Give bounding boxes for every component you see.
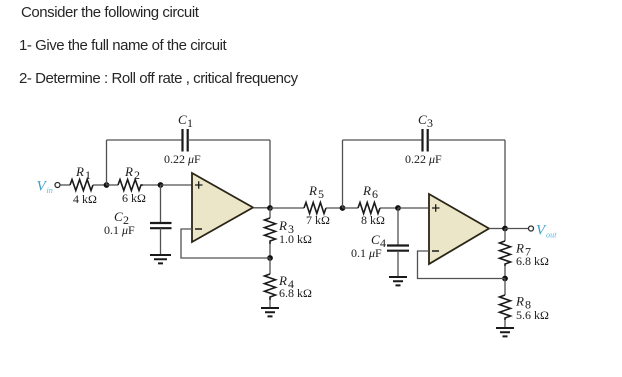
svg-text:8 kΩ: 8 kΩ xyxy=(361,213,385,227)
wire C3 rail left xyxy=(343,139,423,141)
wire R7 to node H xyxy=(504,266,506,279)
node H junction R7/R8/feedback xyxy=(502,276,508,282)
label C3 xyxy=(418,112,433,130)
wire node H to R8 xyxy=(504,279,506,296)
ground under C4 xyxy=(389,277,407,285)
wire R2 to node B xyxy=(143,184,161,186)
svg-text:C: C xyxy=(114,209,123,224)
label 5.6 kOhm xyxy=(516,308,549,322)
U2 plus input symbol xyxy=(432,204,440,212)
wire C4 to ground xyxy=(397,251,399,277)
wire feedback U1 from node D to minus input xyxy=(181,229,270,258)
svg-text:C: C xyxy=(371,232,380,247)
wire C1 rail right xyxy=(188,139,270,141)
wire C1 rail down to node C xyxy=(269,140,271,208)
label Vout xyxy=(536,223,557,240)
svg-text:1.0 kΩ: 1.0 kΩ xyxy=(279,232,312,246)
wire R4 to ground xyxy=(269,300,271,308)
ground under R8 xyxy=(496,328,514,336)
svg-text:R: R xyxy=(308,183,317,198)
capacitor C1 xyxy=(183,129,188,152)
resistor R2 xyxy=(118,180,143,191)
label 6 kOhm xyxy=(122,191,146,205)
svg-text:0.1 μF: 0.1 μF xyxy=(104,223,135,237)
resistor R6 xyxy=(358,203,380,214)
wire node E up to C3 rail xyxy=(342,140,344,208)
label R8 xyxy=(515,294,531,312)
svg-text:0.1 μF: 0.1 μF xyxy=(351,246,382,260)
svg-text:R: R xyxy=(515,294,524,309)
label 7 kOhm xyxy=(306,213,330,227)
svg-text:5.6 kΩ: 5.6 kΩ xyxy=(516,308,549,322)
svg-text:5: 5 xyxy=(318,187,324,201)
node Vin terminal xyxy=(55,183,60,188)
heading line 3 xyxy=(19,71,298,86)
label R5 xyxy=(308,183,324,201)
wire Vin to R1 xyxy=(60,184,70,186)
svg-text:in: in xyxy=(47,186,53,195)
capacitor C2 xyxy=(150,223,172,228)
label Vin xyxy=(37,179,53,196)
capacitor C3 xyxy=(423,129,428,152)
label 4 kOhm xyxy=(73,192,97,206)
svg-text:R: R xyxy=(124,164,133,179)
node G U2 output junction xyxy=(502,226,508,232)
wire node C to R5 xyxy=(270,207,304,209)
capacitor C4 xyxy=(387,246,409,251)
svg-text:2: 2 xyxy=(134,168,140,182)
node A junction R1/R2/C1 xyxy=(104,182,110,188)
resistor R3 xyxy=(265,218,276,244)
label 6.8 kOhm R7 xyxy=(516,254,549,268)
label R6 xyxy=(362,183,378,201)
node D junction R3/R4/feedback xyxy=(267,255,273,261)
node Vout terminal xyxy=(529,226,534,231)
heading line 2 xyxy=(19,38,226,53)
wire R1 to node A xyxy=(93,184,107,186)
svg-text:0.22 μF: 0.22 μF xyxy=(164,152,201,166)
wire R5 to node E xyxy=(326,207,343,209)
svg-text:R: R xyxy=(278,218,287,233)
wire node C to R3 xyxy=(269,208,271,218)
label C2 xyxy=(114,209,129,227)
svg-text:1: 1 xyxy=(85,168,91,182)
node B junction R2/C2/opamp xyxy=(158,182,164,188)
wire U2 output to node G xyxy=(489,228,505,230)
wire R8 to ground xyxy=(504,320,506,328)
label 1.0 kOhm xyxy=(279,232,312,246)
svg-text:3: 3 xyxy=(427,116,433,130)
label R2 xyxy=(124,164,140,182)
wire node D to R4 xyxy=(269,258,271,274)
U1 plus input symbol xyxy=(195,181,203,189)
svg-text:4 kΩ: 4 kΩ xyxy=(73,192,97,206)
wire C3 rail down to node G xyxy=(504,140,506,229)
svg-text:6.8 kΩ: 6.8 kΩ xyxy=(279,286,312,300)
svg-text:R: R xyxy=(362,183,371,198)
label 0.1 uF C4 xyxy=(351,246,382,260)
resistor R7 xyxy=(500,241,511,266)
svg-text:out: out xyxy=(546,231,557,240)
op-amp U1 xyxy=(192,173,253,242)
wire C2 to ground xyxy=(160,228,162,255)
label C1 xyxy=(178,112,193,130)
svg-text:6: 6 xyxy=(372,187,378,201)
wire U1 output to node C xyxy=(253,207,270,209)
resistor R8 xyxy=(500,295,511,320)
wire node F down to C4 xyxy=(397,208,399,245)
resistor R4 xyxy=(265,274,276,300)
label 0.22 uF C3 xyxy=(405,152,442,166)
svg-text:C: C xyxy=(418,112,427,127)
label 0.22 uF C1 xyxy=(164,152,201,166)
wire C3 rail right xyxy=(428,139,505,141)
U1 minus input symbol xyxy=(195,228,202,230)
label R7 xyxy=(515,241,531,259)
svg-text:6 kΩ: 6 kΩ xyxy=(122,191,146,205)
ground under R4 xyxy=(261,308,279,316)
svg-text:R: R xyxy=(75,164,84,179)
wire node B to op-amp U1 plus input xyxy=(161,184,193,186)
label R4 xyxy=(278,273,294,291)
label R3 xyxy=(278,218,294,236)
label 6.8 kOhm R4 xyxy=(279,286,312,300)
wire R6 to node F xyxy=(380,207,398,209)
label R1 xyxy=(75,164,91,182)
label C4 xyxy=(371,232,386,250)
wire R3 to node D xyxy=(269,244,271,258)
svg-text:6.8 kΩ: 6.8 kΩ xyxy=(516,254,549,268)
wire C1 rail left xyxy=(107,139,183,141)
svg-text:C: C xyxy=(178,112,187,127)
svg-text:1: 1 xyxy=(187,116,193,130)
label 8 kOhm xyxy=(361,213,385,227)
label 0.1 uF C2 xyxy=(104,223,135,237)
node E junction R5/R6/C3 xyxy=(340,205,346,211)
node F junction R6/C4/opamp2 xyxy=(395,205,401,211)
heading line 1 xyxy=(21,5,198,20)
wire node B down to C2 xyxy=(160,185,162,223)
wire feedback U2 from node H to minus input xyxy=(418,251,506,279)
svg-text:7 kΩ: 7 kΩ xyxy=(306,213,330,227)
U2 minus input symbol xyxy=(432,250,439,252)
op-amp U2 xyxy=(429,194,489,264)
wire node A up to C1 rail xyxy=(106,140,108,185)
resistor R5 xyxy=(304,203,326,214)
node C U1 output junction xyxy=(267,205,273,211)
resistor R1 xyxy=(70,180,93,191)
wire node G to Vout xyxy=(505,228,528,230)
ground under C2 xyxy=(150,255,171,263)
wire node G to R7 xyxy=(504,229,506,242)
wire node A to R2 xyxy=(107,184,119,186)
wire node E to R6 xyxy=(343,207,359,209)
wire node F to op-amp U2 plus input xyxy=(398,207,429,209)
svg-text:0.22 μF: 0.22 μF xyxy=(405,152,442,166)
